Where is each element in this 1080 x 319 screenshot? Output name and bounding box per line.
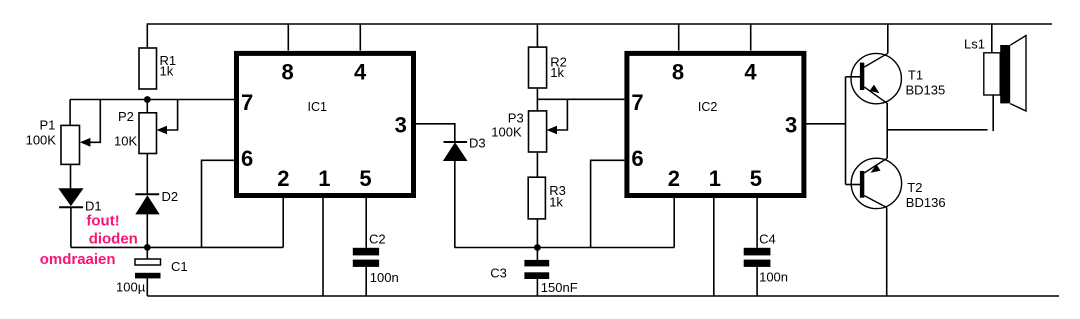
capacitor C2 [353, 248, 379, 256]
wire top supply rail [147, 23, 1052, 25]
capacitor C1 [135, 259, 161, 265]
resistor R2 [529, 47, 547, 88]
svg-text:C3: C3 [490, 266, 507, 281]
svg-text:5: 5 [359, 166, 371, 191]
svg-text:6: 6 [631, 146, 643, 171]
wire T1 base stub [846, 76, 861, 78]
wire base rail vertical [845, 77, 847, 185]
wire D3 down [454, 161, 456, 248]
wire IC2 pin 1 down [713, 198, 715, 296]
wire R3 down [536, 219, 538, 248]
svg-text:C1: C1 [171, 259, 188, 274]
svg-text:2: 2 [668, 166, 680, 191]
wire IC1 pin 3 to D3 [416, 124, 455, 142]
wire P2 to D2 [146, 154, 148, 194]
svg-text:P2: P2 [118, 109, 134, 124]
node junction R3/C3 [534, 244, 541, 251]
wire D1 down [70, 207, 72, 247]
wire D2 down [146, 214, 148, 248]
svg-text:omdraaien: omdraaien [40, 251, 116, 268]
wire P3 wiper riser [553, 99, 567, 130]
wire P2 wiper riser [163, 100, 178, 131]
svg-text:dioden: dioden [89, 230, 138, 247]
wire IC2 pin 4 top [750, 24, 752, 51]
wire C3 top [536, 248, 538, 260]
wire C3 bottom [536, 279, 538, 296]
wire junction to P2 [146, 100, 148, 113]
wire R2 top [536, 24, 538, 47]
wire C1 top [146, 247, 148, 259]
diode D2 [135, 193, 159, 195]
wire emitters to speaker [887, 129, 987, 131]
svg-text:D3: D3 [469, 136, 486, 151]
wire IC1 pin 5 down to C2 [365, 198, 367, 248]
wire emitters junction vertical [886, 104, 888, 159]
wire node B horizontal to IC2 pin 7 [537, 98, 624, 100]
svg-text:100n: 100n [370, 270, 399, 285]
svg-text:4: 4 [354, 60, 367, 85]
svg-text:P1: P1 [40, 118, 56, 133]
svg-text:100n: 100n [759, 270, 788, 285]
svg-text:1k: 1k [160, 64, 174, 79]
svg-text:D1: D1 [85, 199, 102, 214]
potentiometer P1 [61, 125, 80, 164]
wire IC1 pin 1 down [322, 198, 324, 296]
wire IC2 pin 5 down to C4 [756, 198, 758, 248]
svg-text:1: 1 [709, 166, 721, 191]
svg-text:150nF: 150nF [541, 280, 578, 295]
diode D3 [444, 141, 468, 143]
wire IC1 pin 6 left [202, 160, 235, 247]
svg-text:1: 1 [318, 166, 330, 191]
svg-text:7: 7 [241, 90, 253, 115]
svg-text:6: 6 [241, 146, 253, 171]
svg-text:5: 5 [750, 166, 762, 191]
op-amp IC1 box [237, 53, 414, 195]
wire speaker top [991, 24, 993, 54]
diode D1 [59, 189, 82, 206]
wire IC1 pin 4 top [359, 24, 361, 51]
wire IC2 pin 8 top [678, 24, 680, 51]
transistor T2 [851, 158, 901, 208]
node junction R1/P2/pin7 [144, 96, 151, 103]
wire R1 top [146, 24, 148, 48]
wire P1 wiper riser [88, 100, 100, 143]
wire lower node row middle [454, 247, 674, 249]
wire lower node row left [71, 246, 283, 248]
wire P3 to R3 [536, 152, 538, 177]
svg-text:C2: C2 [369, 232, 386, 247]
svg-text:100K: 100K [26, 132, 57, 147]
svg-text:8: 8 [282, 60, 294, 85]
wire T2 base stub [846, 184, 861, 186]
wire speaker bottom [992, 95, 994, 131]
svg-text:1k: 1k [549, 195, 563, 210]
svg-text:3: 3 [785, 112, 797, 137]
wire IC2 pin 6 left [591, 160, 625, 247]
svg-text:2: 2 [277, 166, 289, 191]
svg-text:100µ: 100µ [116, 280, 146, 295]
wire bottom ground rail [147, 295, 1059, 297]
svg-text:Ls1: Ls1 [964, 37, 985, 52]
op-amp IC2 box [627, 53, 804, 195]
svg-text:4: 4 [744, 60, 757, 85]
svg-text:fout!: fout! [86, 212, 119, 229]
wire T2 collector down [886, 208, 888, 297]
wire P1 top riser [69, 100, 71, 126]
wire C2 bottom [365, 267, 367, 296]
wire T1 collector top [887, 24, 889, 53]
svg-text:10K: 10K [114, 134, 137, 149]
svg-text:T1: T1 [908, 68, 923, 83]
resistor R3 [528, 177, 545, 219]
wire P1 to D1 [70, 164, 72, 189]
capacitor C4 [744, 248, 771, 256]
transistor T1 [851, 53, 901, 103]
wire C1 bottom [146, 278, 148, 296]
svg-text:IC2: IC2 [698, 100, 718, 114]
svg-text:P3: P3 [508, 111, 524, 126]
svg-text:1k: 1k [550, 65, 564, 80]
svg-text:BD135: BD135 [906, 83, 946, 98]
svg-text:IC1: IC1 [308, 100, 328, 114]
svg-text:T2: T2 [907, 180, 922, 195]
svg-text:100K: 100K [491, 125, 522, 140]
wire node A horizontal to IC1 pin 7 [70, 99, 234, 101]
node junction D1/D2/C1 [144, 244, 151, 251]
potentiometer P2 [139, 113, 157, 154]
svg-text:BD136: BD136 [906, 195, 946, 210]
potentiometer P3 [529, 111, 547, 152]
wire IC2 pin 3 to bases [806, 123, 846, 125]
svg-text:7: 7 [631, 90, 643, 115]
wire C4 bottom [756, 267, 758, 296]
capacitor C3 [524, 260, 549, 267]
wire IC2 pin 2 down [673, 198, 675, 248]
wire IC1 pin 2 down [282, 198, 284, 247]
svg-text:3: 3 [395, 112, 407, 137]
wire R2 to P3 [536, 88, 538, 111]
resistor R1 [139, 48, 157, 89]
svg-text:8: 8 [672, 60, 684, 85]
svg-text:D2: D2 [162, 189, 179, 204]
speaker Ls1 [984, 53, 1000, 95]
svg-text:C4: C4 [759, 232, 776, 247]
wire IC1 pin 8 top [287, 24, 289, 51]
